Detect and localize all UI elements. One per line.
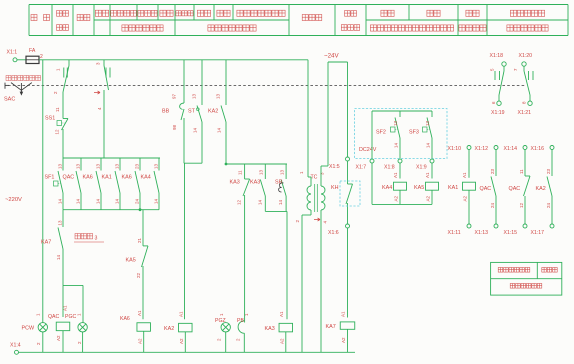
- svg-text:A1: A1: [425, 172, 430, 178]
- svg-text:SS1: SS1: [45, 116, 55, 122]
- wire: [399, 163, 401, 179]
- terminal X1:7: [356, 159, 375, 171]
- DC24V module dashed box: [355, 109, 448, 159]
- wire: [468, 190, 470, 224]
- svg-text:X1:10: X1:10: [448, 146, 462, 152]
- terminal X1:4: [10, 343, 21, 355]
- svg-text:X1:15: X1:15: [504, 230, 518, 236]
- svg-text:24: 24: [546, 202, 551, 208]
- svg-text:QAC: QAC: [480, 186, 492, 192]
- terminal X1:5: [329, 157, 350, 170]
- contact KA6 23-24: [122, 158, 141, 210]
- wire: [347, 329, 349, 352]
- svg-text:A2: A2: [138, 338, 143, 344]
- svg-text:13: 13: [58, 163, 63, 169]
- wire: [399, 190, 401, 204]
- svg-text:X1:16: X1:16: [531, 146, 545, 152]
- wire bus KA3 row: [225, 163, 287, 166]
- svg-text:14: 14: [278, 199, 283, 205]
- label auto-stop-manual: [6, 76, 41, 81]
- svg-text:13: 13: [192, 93, 197, 99]
- selector contact 1-2: [53, 60, 69, 94]
- svg-text:A2: A2: [179, 338, 184, 344]
- svg-text:KA4: KA4: [141, 175, 151, 181]
- lamp PGC: [65, 313, 87, 344]
- svg-text:98: 98: [172, 124, 177, 130]
- wire: [82, 285, 84, 322]
- svg-text:X1:12: X1:12: [475, 146, 489, 152]
- coil KA3: [265, 311, 293, 344]
- svg-text:13: 13: [259, 169, 264, 175]
- svg-text:ST: ST: [188, 109, 196, 115]
- svg-text:A1: A1: [462, 172, 467, 178]
- svg-text:11: 11: [238, 170, 243, 175]
- svg-text:X1:19: X1:19: [491, 110, 505, 116]
- legend box: [491, 262, 562, 295]
- contact SR 13-14: [275, 164, 286, 211]
- wire: [62, 129, 64, 158]
- svg-text:KA2: KA2: [536, 186, 546, 192]
- pushbutton SS1: [45, 107, 68, 135]
- svg-text:X1:6: X1:6: [328, 230, 339, 236]
- svg-text:3: 3: [95, 236, 98, 242]
- svg-text:FA: FA: [29, 48, 36, 54]
- svg-text:A2: A2: [426, 195, 431, 201]
- coil KA7: [326, 311, 355, 343]
- svg-text:KA3: KA3: [230, 180, 240, 186]
- svg-text:A1: A1: [63, 305, 68, 311]
- terminal X1:10: [448, 146, 472, 153]
- svg-text:KA1: KA1: [102, 175, 112, 181]
- svg-text:A1: A1: [279, 311, 284, 317]
- wire 24V left rail: [321, 62, 328, 182]
- thermal contact KH: [331, 161, 353, 224]
- svg-text:KH: KH: [331, 185, 339, 191]
- feedback contact KA2 23-24 X1:16/X1:17: [531, 146, 555, 237]
- label ~220V: [5, 197, 22, 203]
- svg-text:14: 14: [394, 142, 399, 148]
- wire: [184, 332, 186, 353]
- wire: [17, 59, 26, 61]
- contact KA5 21-22: [126, 210, 149, 320]
- wire TC-4 return: [314, 215, 328, 352]
- KH enclosure dashed box: [340, 181, 360, 206]
- svg-text:QAC: QAC: [509, 186, 521, 192]
- wire bus upper: [63, 157, 160, 159]
- svg-text:A2: A2: [394, 195, 399, 201]
- svg-text:23: 23: [490, 168, 495, 174]
- svg-text:13: 13: [425, 120, 430, 126]
- wire bottom rail: [19, 351, 356, 353]
- contact KA2 13-14: [208, 60, 226, 164]
- reference note jian-tu-3: [74, 234, 104, 243]
- title block header table: [29, 5, 568, 36]
- selector switch SAC: [5, 83, 32, 96]
- wire left rail: [42, 60, 44, 323]
- legend text fire feedback signal: [510, 284, 542, 289]
- svg-text:TC: TC: [311, 175, 318, 181]
- lamp PCW: [22, 313, 48, 345]
- svg-text:~24V: ~24V: [324, 53, 339, 60]
- wire: [243, 333, 245, 352]
- label DC24V: [359, 147, 377, 153]
- svg-text:A1: A1: [393, 172, 398, 178]
- coil KA1: [448, 172, 476, 202]
- wire junction BB-ST: [184, 162, 202, 164]
- svg-text:X1:7: X1:7: [356, 165, 367, 171]
- svg-text:11: 11: [519, 169, 524, 174]
- feedback contact QAC 23-24 X1:12/X1:13: [475, 146, 499, 237]
- svg-text:14: 14: [115, 198, 120, 204]
- thermal contact BB 97-98: [162, 60, 184, 163]
- contact KA1 13-14: [102, 158, 121, 210]
- wire: [468, 150, 470, 178]
- wire top bus: [39, 59, 308, 61]
- svg-text:KA6: KA6: [122, 175, 132, 181]
- wire: [371, 163, 373, 204]
- svg-text:X1:18: X1:18: [490, 53, 504, 59]
- svg-text:14: 14: [193, 127, 198, 133]
- svg-text:KA6: KA6: [120, 316, 130, 322]
- wire 24V tie: [328, 61, 348, 63]
- wire module left drop: [371, 111, 373, 158]
- svg-text:SF3: SF3: [409, 130, 419, 136]
- transformer TC: [307, 172, 325, 215]
- wire: [225, 332, 227, 352]
- svg-text:12: 12: [55, 129, 60, 135]
- svg-text:A2: A2: [280, 338, 285, 344]
- svg-text:12: 12: [519, 202, 524, 208]
- svg-text:KA2: KA2: [164, 326, 174, 332]
- wire: [82, 332, 84, 352]
- svg-text:KA3: KA3: [265, 326, 275, 332]
- svg-text:X1:4: X1:4: [10, 343, 21, 349]
- label ~24V: [324, 53, 339, 60]
- svg-text:X1:9: X1:9: [416, 165, 427, 171]
- svg-text:KA1: KA1: [448, 185, 458, 191]
- svg-text:A1: A1: [137, 310, 142, 316]
- svg-text:PGZ: PGZ: [215, 318, 226, 324]
- coil KA6: [120, 310, 150, 344]
- svg-text:KA2: KA2: [208, 109, 218, 115]
- legend text fan status / overload: [498, 268, 557, 273]
- svg-text:PCW: PCW: [22, 326, 35, 332]
- terminal X1:6: [328, 224, 350, 236]
- svg-text:KA4: KA4: [382, 185, 392, 191]
- coil QAC: [48, 285, 70, 341]
- contact KA3 11-12: [230, 164, 250, 323]
- svg-text:KA6: KA6: [83, 175, 93, 181]
- svg-text:13: 13: [115, 163, 120, 169]
- svg-text:SF2: SF2: [376, 130, 386, 136]
- selector contact 7-8 X1:20/X1:21: [513, 53, 533, 105]
- contact QAC 13-14: [63, 158, 82, 210]
- svg-text:BB: BB: [162, 109, 170, 115]
- svg-text:A2: A2: [341, 337, 346, 343]
- svg-text:X1:13: X1:13: [475, 230, 489, 236]
- svg-text:KA7: KA7: [41, 240, 51, 246]
- terminal X1:8: [384, 159, 402, 171]
- contact KA3 13-14: [250, 164, 265, 211]
- svg-text:13: 13: [393, 120, 398, 126]
- svg-text:13: 13: [154, 163, 159, 169]
- pushbutton SF3 13-14: [409, 111, 432, 158]
- svg-text:14: 14: [56, 254, 61, 260]
- svg-text:12: 12: [237, 199, 242, 205]
- mechanical linkage dashed line: [8, 84, 525, 86]
- svg-text:X1:14: X1:14: [504, 146, 518, 152]
- wire: [62, 331, 64, 353]
- label SAC: [4, 97, 15, 103]
- lamp PGZ: [215, 313, 230, 341]
- svg-text:14: 14: [58, 198, 63, 204]
- svg-text:SR: SR: [275, 180, 283, 186]
- wire bus lower: [63, 208, 159, 211]
- wire: [431, 190, 433, 204]
- svg-text:A1: A1: [179, 311, 184, 317]
- svg-text:2: 2: [40, 54, 43, 60]
- svg-text:24: 24: [490, 202, 495, 208]
- svg-text:KA7: KA7: [326, 324, 336, 330]
- wire: [42, 332, 44, 352]
- terminal X1:1: [7, 50, 18, 62]
- svg-text:X1:11: X1:11: [448, 230, 461, 236]
- wire TC primary feed: [299, 60, 311, 182]
- svg-text:X1:20: X1:20: [519, 53, 533, 59]
- wire node: [63, 284, 83, 286]
- svg-text:PGC: PGC: [65, 314, 76, 320]
- svg-text:97: 97: [172, 93, 177, 99]
- test button ST 13-14: [188, 60, 202, 163]
- svg-text:23: 23: [135, 163, 140, 169]
- contact KA4 13-14: [141, 158, 160, 210]
- wire: [184, 163, 186, 319]
- wire module bottom bus: [372, 203, 432, 205]
- svg-text:14: 14: [154, 198, 159, 204]
- svg-text:14: 14: [96, 198, 101, 204]
- sounder PB: [236, 313, 250, 341]
- feedback contact QAC 11-12 X1:14/X1:15: [504, 146, 531, 237]
- contact SF1 13-14: [45, 158, 64, 210]
- wire TC-2 return: [295, 215, 311, 352]
- wire: [431, 163, 433, 179]
- svg-text:11: 11: [55, 107, 60, 112]
- svg-text:A1: A1: [341, 311, 346, 317]
- wire: [285, 332, 287, 353]
- svg-text:SAC: SAC: [4, 97, 15, 103]
- svg-text:13: 13: [58, 220, 63, 226]
- svg-text:X1:8: X1:8: [384, 165, 395, 171]
- svg-text:13: 13: [76, 163, 81, 169]
- svg-text:24: 24: [135, 198, 140, 204]
- svg-text:PB: PB: [237, 318, 244, 324]
- svg-text:KA5: KA5: [414, 185, 424, 191]
- svg-text:KA5: KA5: [126, 258, 136, 264]
- wire: [143, 331, 145, 352]
- coil KA5: [414, 172, 439, 202]
- fuse FA: [26, 48, 43, 64]
- svg-text:21: 21: [137, 237, 142, 243]
- svg-text:~220V: ~220V: [5, 197, 22, 203]
- terminal X1:9: [416, 159, 434, 171]
- svg-text:13: 13: [279, 169, 284, 175]
- pushbutton SF2 13-14: [376, 111, 400, 158]
- svg-text:23: 23: [546, 168, 551, 174]
- coil KA2: [164, 311, 192, 344]
- svg-text:22: 22: [136, 272, 141, 278]
- svg-text:14: 14: [258, 199, 263, 205]
- svg-text:QAC: QAC: [63, 175, 75, 181]
- svg-text:X1:5: X1:5: [329, 164, 340, 170]
- svg-text:14: 14: [217, 127, 222, 133]
- coil KA4: [382, 172, 407, 202]
- svg-text:13: 13: [216, 93, 221, 99]
- svg-text:X1:17: X1:17: [531, 230, 545, 236]
- selector contact 5-6 X1:18/X1:19: [490, 53, 507, 105]
- svg-text:A2: A2: [56, 335, 61, 341]
- svg-text:SF1: SF1: [45, 175, 55, 181]
- svg-text:13: 13: [96, 163, 101, 169]
- contact KA6 13-14: [83, 158, 102, 210]
- contact KA7 13-14: [41, 210, 63, 286]
- wire: [347, 228, 349, 318]
- terminal X1:11: [448, 224, 472, 236]
- svg-text:14: 14: [426, 142, 431, 148]
- wire junction KA3-SR: [265, 210, 287, 212]
- svg-text:KA3: KA3: [250, 180, 260, 186]
- svg-text:DC24V: DC24V: [359, 147, 377, 153]
- wire: [286, 211, 288, 319]
- svg-text:QAC: QAC: [48, 314, 59, 320]
- title block header text: [31, 10, 548, 31]
- wire: [62, 92, 64, 112]
- wire 24V right rail: [347, 62, 349, 157]
- svg-text:X1:1: X1:1: [7, 50, 18, 56]
- svg-text:X1:21: X1:21: [518, 110, 532, 116]
- wire module top bus: [372, 110, 432, 112]
- labels X1:19 X1:21: [491, 110, 531, 116]
- svg-text:14: 14: [76, 198, 81, 204]
- svg-text:A2: A2: [463, 195, 468, 201]
- selector contact 3-4: [94, 60, 110, 158]
